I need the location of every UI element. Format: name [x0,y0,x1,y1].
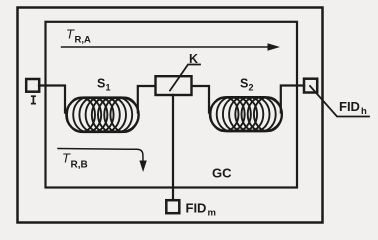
arrow T_R,A [62,46,270,48]
detector FID_h square [304,79,317,93]
svg-text:m: m [208,208,216,219]
svg-text:S: S [97,77,105,91]
wire I to S1 [39,86,65,113]
inner GC compartment box [46,22,298,188]
svg-text:R,A: R,A [75,35,92,46]
outer GC oven box [18,8,323,223]
arrowhead T_R,A [268,43,281,51]
valve K box [156,76,192,95]
svg-text:S: S [240,77,248,91]
wire S2 to FID_h [281,86,304,113]
FID_h pointer line [310,86,369,117]
svg-text:FID: FID [339,99,360,114]
svg-text:R,B: R,B [71,160,88,171]
svg-text:GC: GC [212,166,232,181]
svg-text:1: 1 [106,83,111,93]
svg-text:h: h [361,106,367,117]
column S1 coil [66,98,138,133]
valve K lever [170,65,200,91]
svg-text:2: 2 [249,83,254,93]
svg-text:K: K [189,52,198,66]
injector I [26,79,39,92]
svg-text:FID: FID [186,201,207,216]
wire S1 to K [138,86,155,113]
arrow T_R,B [58,149,143,163]
wire K to S2 [192,86,209,113]
column S2 coil [210,97,282,131]
detector FID_m square [166,200,179,213]
label I [31,96,36,103]
wire K to FID_m [172,95,174,200]
arrowhead T_R,B [139,161,146,173]
